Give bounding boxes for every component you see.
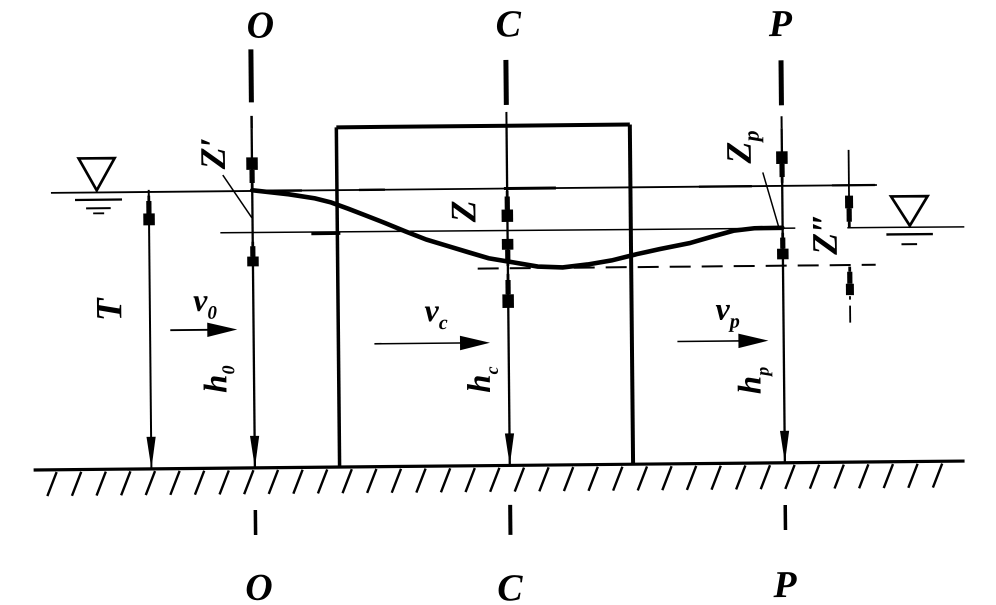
svg-text:P: P bbox=[772, 564, 797, 605]
svg-text:Z: Z bbox=[443, 200, 483, 223]
svg-text:C: C bbox=[497, 567, 523, 605]
svg-text:Z″: Z″ bbox=[804, 213, 844, 256]
svg-text:O: O bbox=[245, 567, 273, 605]
svg-text:O: O bbox=[246, 5, 274, 47]
svg-text:Z′: Z′ bbox=[193, 137, 233, 171]
svg-text:P: P bbox=[768, 3, 793, 45]
svg-text:C: C bbox=[495, 3, 521, 45]
svg-text:T: T bbox=[89, 297, 130, 321]
